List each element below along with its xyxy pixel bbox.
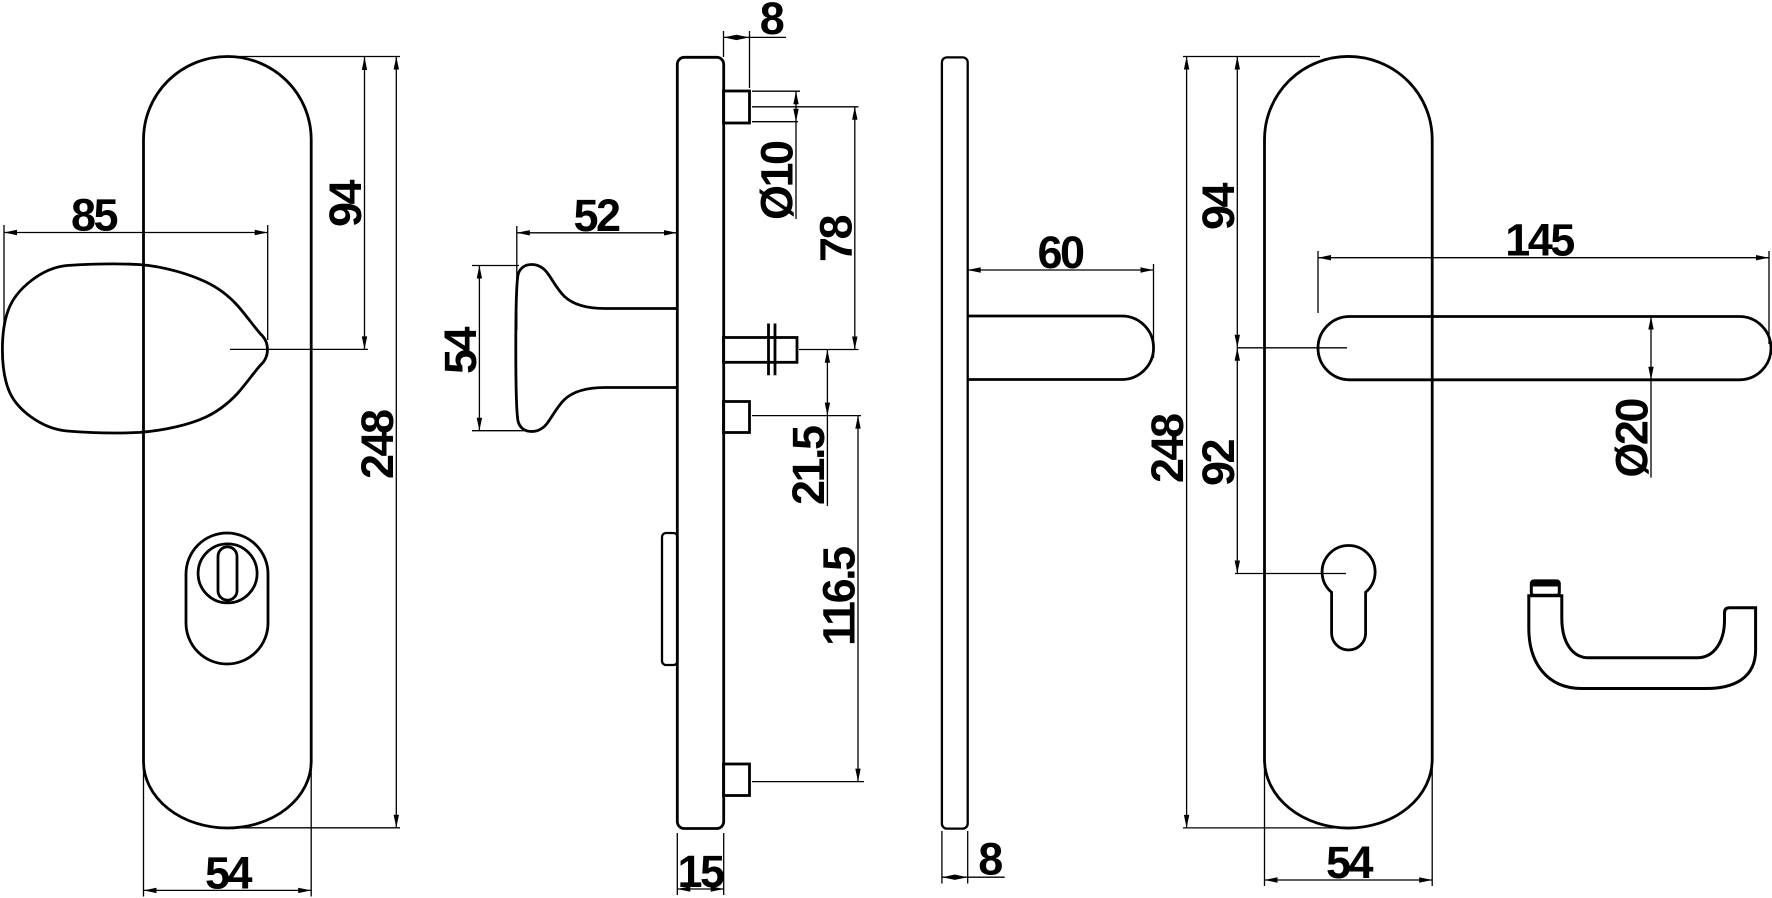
svg-text:145: 145 — [1505, 215, 1574, 266]
dimension 145 — [1318, 251, 1769, 344]
dimension 85 — [4, 225, 268, 340]
latch block (side view) — [662, 533, 678, 665]
cylinder ring — [198, 544, 257, 603]
dimension 94 (right) — [1237, 57, 1347, 348]
svg-text:54: 54 — [435, 326, 486, 374]
spindle washer lines — [769, 324, 776, 376]
knob (front view) — [2, 264, 267, 433]
spindle — [724, 338, 798, 363]
svg-text:85: 85 — [71, 190, 118, 241]
svg-text:21.5: 21.5 — [783, 426, 834, 505]
inside backplate (front view) — [1265, 56, 1433, 828]
lever handle bar (front view) — [1318, 317, 1771, 380]
fixing bolt top (side view) — [724, 91, 750, 123]
dimension 21.5 — [752, 350, 861, 506]
knob side view: backplate — [677, 57, 723, 828]
cylinder slot — [218, 547, 237, 600]
dimension 248 (left view) — [230, 57, 400, 828]
dimension diameter 10 — [752, 91, 800, 219]
fixing bolt middle (side view) — [724, 402, 750, 433]
dimension 54 (knob height) — [472, 266, 535, 431]
svg-text:78: 78 — [810, 215, 861, 262]
svg-text:52: 52 — [573, 190, 620, 241]
knob side profile — [516, 265, 677, 432]
dimension 54 (left view bottom) — [144, 765, 312, 897]
outside backplate (front view) — [144, 56, 312, 828]
euro profile keyhole — [1322, 545, 1375, 650]
svg-text:54: 54 — [1326, 837, 1374, 888]
security escutcheon outer oval — [186, 533, 268, 664]
dimension 60 — [968, 264, 1154, 358]
dimension 78 — [752, 107, 859, 350]
lever handle (detached, bottom right) — [1529, 596, 1756, 689]
svg-text:248: 248 — [352, 410, 403, 479]
svg-text:Ø20: Ø20 — [1607, 399, 1658, 478]
svg-text:8: 8 — [760, 0, 784, 44]
dimension 52 — [517, 226, 677, 330]
dimension 248 (right) — [1183, 57, 1350, 828]
dimension 15 — [677, 833, 723, 895]
dimension 8 (plate thickness) — [942, 831, 1005, 884]
svg-text:60: 60 — [1037, 227, 1084, 278]
knob centre line — [230, 348, 368, 350]
svg-text:94: 94 — [320, 179, 371, 227]
svg-text:92: 92 — [1193, 439, 1244, 486]
fixing bolt bottom (side view) — [724, 764, 750, 796]
dimension 94 (left view) — [364, 57, 366, 349]
dimension 54 (right bottom) — [1265, 762, 1433, 886]
dimension diameter 20 — [1650, 317, 1652, 478]
lever spindle cap filled top — [1531, 581, 1559, 587]
dimension 116.5 — [752, 416, 864, 782]
svg-text:54: 54 — [205, 848, 253, 898]
svg-text:94: 94 — [1193, 182, 1244, 230]
svg-text:116.5: 116.5 — [814, 547, 865, 646]
dimension 8 (bolt offset, top) — [724, 31, 787, 88]
inside handle neck (side view) — [968, 316, 1154, 380]
dimension 92 — [1235, 348, 1346, 574]
svg-text:248: 248 — [1142, 414, 1193, 483]
inside backplate (side view) — [942, 57, 968, 828]
svg-text:15: 15 — [677, 846, 724, 897]
svg-text:8: 8 — [978, 834, 1002, 885]
svg-text:Ø10: Ø10 — [752, 141, 803, 220]
lever spindle cap outline — [1531, 581, 1559, 595]
